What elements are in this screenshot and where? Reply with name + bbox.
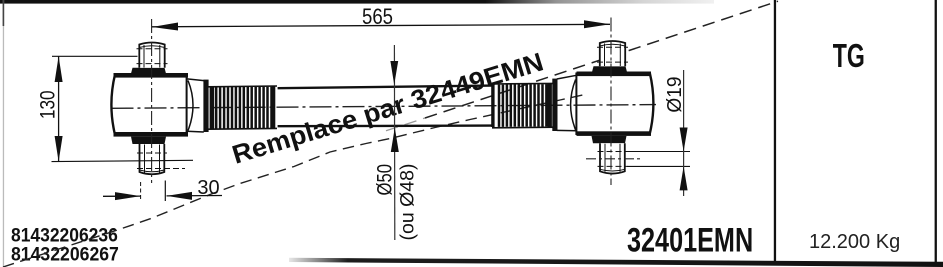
title block text TG (833, 38, 865, 75)
left pin bottom stub: body (140, 144, 165, 174)
svg-text:30: 30 (197, 177, 219, 199)
right bushing eye: left edge line (575, 73, 577, 136)
left pin bottom stub: bottom face line (140, 170, 165, 172)
right pin top stub: collar (592, 66, 627, 72)
right pin bottom stub: thread limit dash upper (598, 151, 628, 153)
left bushing eye: right edge line (186, 74, 188, 136)
svg-text:Ø50: Ø50 (374, 164, 397, 195)
left boot bulge arc (188, 81, 193, 131)
reference number 81432206236 (11, 224, 118, 246)
dimension 130: bottom arrowhead (55, 136, 63, 162)
svg-text:565: 565 (362, 6, 393, 30)
left pin bottom stub: thread minor lines (144, 145, 146, 173)
sheet left border line (3, 0, 4, 267)
right pin bottom stub: thread limit dash lower (598, 165, 628, 167)
right pin top stub: thread limit dashes (597, 46, 628, 48)
right pin horizontal centre line (bottom stub) (586, 158, 640, 160)
dimension 130: top arrowhead (55, 56, 63, 82)
shaft tube top edge (278, 86, 492, 89)
right bellows outline top (492, 82, 556, 85)
left pin top stub: thread limit dashes (137, 48, 168, 50)
replacement note text: Remplace par 32449EMN (229, 47, 547, 170)
strike-out dashed line (shallow, bowed) (3, 95, 585, 267)
strike-out dashed line (steep, straight, full sheet) (386, 118, 425, 131)
left bushing eye: left side arc (111, 75, 115, 135)
dimension diameter 50: lower arrowhead pointing up (391, 128, 399, 152)
right boot flare top line (557, 75, 577, 79)
right boot bulge arc (571, 80, 576, 131)
svg-text:Ø19: Ø19 (663, 77, 686, 113)
dimension 30: left tail line with arrowhead pointing right (103, 195, 141, 197)
dimension diameter 19: dimension line vertical (683, 70, 685, 196)
dimension 565: right arrowhead (584, 20, 610, 28)
left bellows end bar (shaft side) (272, 86, 275, 128)
right bellows thick end bar (eye side) (552, 79, 557, 131)
right bushing eye: right side arc (650, 73, 654, 134)
svg-text:TG: TG (833, 38, 865, 75)
left boot flare top line (187, 79, 204, 81)
left pin bottom stub: collar (131, 137, 166, 144)
dimension diameter 50: dimension line vertical (393, 45, 395, 240)
left bellows thick end bar (eye side) (203, 80, 208, 132)
reference number 81432206267 (11, 243, 119, 265)
svg-text:81432206267: 81432206267 (11, 243, 119, 265)
left bushing eye: top flange bar (114, 73, 189, 78)
right bushing eye: bottom flange bar (577, 131, 652, 136)
rod horizontal centre line (dash-dot) (112, 105, 657, 109)
dimension 130: extension line top (52, 55, 138, 57)
svg-text:130: 130 (37, 90, 60, 119)
right boot flare bottom line (557, 129, 577, 131)
dimension 130: extension line bottom (52, 160, 194, 161)
right pin vertical centre line (610, 18, 612, 186)
dimension 30: solid extension line (pin right edge) (164, 181, 166, 202)
left pin top stub: body (139, 43, 164, 68)
right bellows end bar (shaft side) (491, 84, 494, 127)
right pin top stub: top face line (600, 44, 625, 46)
svg-text:32401EMN: 32401EMN (627, 222, 753, 259)
dimension 30: dashed extension line (pin left edge) (140, 182, 142, 200)
right pin bottom stub: body (600, 143, 625, 173)
right pin bottom stub: thread minor lines (604, 144, 606, 172)
sheet top border bar (0, 0, 714, 4)
left boot flare bottom line (187, 130, 204, 133)
dimension 130: label (rotated) (37, 90, 60, 119)
left pin top stub: collar (131, 68, 166, 74)
left pin top stub: top face line (139, 46, 164, 48)
left pin vertical centre line (151, 19, 153, 183)
svg-text:(ou Ø48): (ou Ø48) (397, 164, 419, 241)
right pin bottom stub: bottom face line (600, 169, 625, 171)
sheet bottom border bar (289, 258, 943, 267)
left bellows outline top (208, 85, 277, 88)
left bellows outline bottom (208, 127, 277, 130)
dimension diameter 19: label (rotated) (663, 77, 686, 113)
right bellows outline bottom (492, 126, 556, 129)
dimension 30: right tail line with arrowhead pointing left (167, 195, 223, 197)
right bellows last thick rib (548, 84, 552, 127)
shaft tube bottom edge (278, 124, 492, 127)
left bushing eye: bottom flange bar (114, 132, 189, 137)
dimension diameter 19: extension line upper (627, 151, 690, 153)
dimension 130: dimension line (58, 56, 60, 161)
dimension diameter 19: extension line lower (627, 165, 690, 167)
dimension (ou diameter 48): label (rotated) (397, 164, 419, 241)
svg-text:12.200 Kg: 12.200 Kg (809, 231, 900, 253)
dimension 565: dimension line (152, 24, 610, 27)
dimension diameter 19: upper arrowhead pointing down (680, 128, 688, 152)
part number 32401EMN (627, 222, 753, 259)
dimension diameter 19: lower arrowhead pointing up (680, 166, 688, 190)
dimension diameter 50: upper arrowhead pointing down (390, 61, 398, 85)
title block: right border line (935, 0, 937, 263)
left pin bottom stub: thread limit dashes (137, 152, 167, 154)
right bushing eye: top flange bar (577, 72, 652, 77)
right pin top stub: body (600, 41, 625, 66)
right pin top stub: thread minor lines (604, 44, 606, 67)
right bellows ribs (499, 84, 546, 127)
dimension 565: left arrowhead (152, 23, 178, 31)
title block: left divider line of right panel (774, 0, 776, 261)
dimension diameter 50: label (rotated) (374, 164, 397, 195)
dimension 565: label (362, 6, 393, 30)
left pin top stub: thread minor lines (143, 45, 145, 68)
left bellows ribs (216, 87, 271, 129)
left bellows first thick rib (210, 87, 215, 129)
right pin bottom stub: collar (592, 136, 627, 143)
